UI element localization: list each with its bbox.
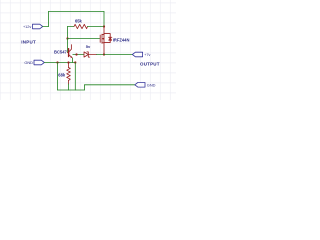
connector J1 INPUT +12v [33, 24, 43, 29]
wire R1 right lead [88, 26, 105, 28]
resistor R1 65k [74, 24, 88, 28]
svg-text:68k: 68k [58, 73, 66, 78]
wire gate horizontal [68, 38, 100, 40]
svg-text:GND: GND [147, 83, 156, 88]
wire rail drop [103, 12, 105, 27]
connector J3 GND left [34, 60, 44, 65]
wire input stub [43, 26, 49, 28]
svg-text:IRFZ44N: IRFZ44N [113, 38, 130, 43]
wire gnd row [45, 62, 76, 64]
connector J2 OUTPUT +7v [132, 52, 142, 57]
wire base drop [67, 39, 69, 53]
transistor Q1 BC547 [68, 45, 73, 58]
wire R2 bottom lead [68, 84, 70, 90]
node gnd row junction emitter [74, 61, 76, 63]
wire bottom horizontal [58, 89, 85, 91]
svg-text:+12v: +12v [23, 25, 31, 29]
connector J4 GND right [135, 83, 145, 88]
wire zener to output [97, 54, 105, 56]
diode D1 zener 5v [84, 52, 90, 57]
wire output [104, 54, 133, 56]
diode D1 zener lead left [73, 54, 84, 56]
background [0, 0, 176, 100]
svg-text:65k: 65k [75, 18, 83, 23]
svg-text:BC547: BC547 [54, 49, 67, 54]
wire step up [84, 85, 86, 90]
svg-text:+7v: +7v [144, 53, 150, 57]
wire emitter stub [71, 58, 73, 62]
svg-text:OUTPUT: OUTPUT [140, 62, 160, 67]
svg-text:GND: GND [24, 60, 33, 65]
wire input riser [48, 12, 50, 27]
node gnd row junction left [56, 61, 58, 63]
node zener junction [75, 53, 77, 55]
wire R1 left lead [68, 26, 75, 28]
wire emitter column [74, 63, 76, 91]
wire top rail [49, 11, 105, 13]
node J1 junction [103, 25, 105, 27]
transistor U1 IRFZ44N mosfet [100, 27, 112, 55]
diode D1 lead right [88, 54, 96, 56]
grid [0, 0, 176, 100]
wire left drop [57, 63, 59, 91]
node gate junction [66, 37, 68, 39]
node output junction [103, 53, 105, 55]
resistor R2 68k [67, 63, 71, 85]
node gnd row junction R2 [67, 61, 69, 63]
svg-text:INPUT: INPUT [21, 40, 36, 45]
wire gate node drop [67, 27, 69, 39]
svg-text:5v: 5v [86, 44, 91, 49]
wire gnd long [85, 84, 136, 86]
